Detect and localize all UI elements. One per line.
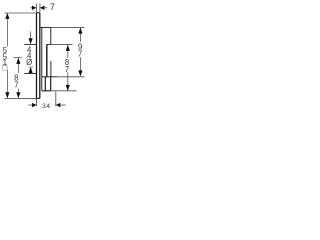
svg-text:34: 34 xyxy=(42,103,51,110)
svg-text:7: 7 xyxy=(65,65,70,74)
svg-text:7: 7 xyxy=(14,80,19,89)
svg-text:7: 7 xyxy=(50,2,55,12)
svg-text:Ø: Ø xyxy=(26,58,32,67)
svg-text:□: □ xyxy=(2,63,7,73)
svg-text:7: 7 xyxy=(78,50,83,59)
